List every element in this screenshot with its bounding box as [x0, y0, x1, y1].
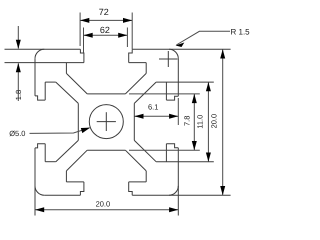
dim 62 extension line right [126, 28, 128, 48]
top slot left lip underside with 1.8 extension [5, 62, 84, 64]
svg-text:20.0: 20.0 [96, 199, 111, 208]
dim 7.8 extension line top [129, 93, 200, 95]
bottom face left [44, 194, 80, 196]
left face upper [34, 59, 36, 96]
left slot bottom step [35, 144, 45, 148]
left slot cavity wall top [45, 81, 56, 83]
arrowhead 6.1 right [169, 114, 178, 119]
arrowhead 20.0 right up [220, 49, 225, 58]
web diagonal bottom-right [125, 150, 146, 171]
arrowhead O5.0 leader [81, 128, 90, 134]
arrowhead 6.1 left [134, 114, 143, 119]
center mark horizontal [97, 121, 116, 123]
web diagonal right-bottom [134, 140, 156, 161]
top face right with 20.0 extension [132, 48, 230, 50]
right slot cavity wall top with 11.0 extension [156, 81, 214, 83]
dim 72 dimension line [80, 19, 132, 21]
arrowhead R1.5 leader [176, 43, 185, 48]
arrowhead 72 right [123, 18, 132, 23]
web diagonal right-top [134, 82, 156, 103]
arrowhead 1.8 down [16, 40, 21, 49]
left slot bottom lip face [44, 144, 46, 162]
corner arc bottom-right R1.5 [169, 186, 178, 195]
core left wall [77, 103, 79, 140]
web diagonal top-right [125, 73, 146, 94]
left face lower with 20.0 extension [34, 148, 36, 216]
top slot right lip underside [129, 62, 147, 64]
arrowhead 20.0 right down [220, 186, 225, 195]
dim 11.0 dimension line [207, 82, 209, 162]
top face with left extension (1.8 dim) [5, 48, 81, 50]
bottom face right with 20.0 extension [132, 194, 230, 196]
corner arc top-right R1.5 [169, 49, 178, 58]
right slot top lip face [165, 82, 167, 100]
right slot cavity wall bottom with 11.0 extension [156, 161, 214, 163]
left slot top lip face [44, 82, 46, 100]
bottom slot cavity wall left [65, 171, 67, 182]
center bore circle O5.0 [89, 105, 123, 139]
arrowhead 62 right [118, 33, 127, 38]
top slot cavity wall left [65, 63, 67, 74]
arrowhead 62 left [84, 33, 93, 38]
dim 20.0 bottom dimension line [35, 209, 178, 211]
svg-text:R 1.5: R 1.5 [231, 28, 251, 37]
dim 1.8 upper pointer line [17, 26, 19, 49]
top slot right step [129, 49, 133, 62]
dim 72 extension line left [79, 13, 81, 47]
dim 6.1 extension line right [177, 98, 179, 125]
left slot top step [35, 96, 45, 100]
right face upper [177, 59, 179, 97]
top slot left step [80, 49, 84, 62]
arrowhead 72 left [80, 18, 89, 23]
arrowhead 20.0 bottom left [35, 207, 44, 212]
dim 72 extension line right [131, 13, 133, 50]
left slot cavity wall bottom [45, 161, 56, 163]
core top wall [87, 93, 125, 95]
dim 7.8 extension line bottom [129, 149, 200, 151]
arrowhead 1.8 up [16, 63, 21, 72]
dim 20.0 right dimension line [222, 49, 224, 195]
dim 6.1 dimension line [134, 115, 178, 117]
bottom slot left step [80, 182, 84, 195]
corner arc top-left R1.5 [35, 49, 44, 58]
svg-text:20.0: 20.0 [209, 114, 218, 129]
dim 1.8 lower pointer line [17, 63, 19, 101]
web diagonal left-top [56, 82, 79, 103]
bottom slot right lip underside [129, 181, 147, 183]
svg-text:11.0: 11.0 [195, 115, 204, 129]
dim 7.8 dimension line [193, 94, 195, 150]
leader R1.5 [176, 31, 230, 45]
right slot bottom lip face [165, 144, 167, 162]
center mark vertical [105, 112, 107, 131]
web diagonal left-bottom [56, 140, 79, 161]
bottom slot cavity wall right [145, 171, 147, 182]
svg-text:7.8: 7.8 [182, 116, 191, 126]
arrowhead 11.0 up [206, 82, 211, 91]
core right wall [133, 103, 135, 140]
web diagonal top-left [66, 73, 87, 94]
bottom slot right step [129, 182, 133, 195]
core bottom wall [87, 149, 125, 151]
right slot top step [166, 96, 178, 100]
right face lower with 20.0 extension [177, 148, 179, 216]
svg-text:72: 72 [99, 7, 109, 17]
arrowhead 11.0 down [206, 153, 211, 162]
bottom slot left lip underside [66, 181, 84, 183]
svg-text:6.1: 6.1 [148, 103, 158, 112]
svg-text:62: 62 [100, 25, 110, 35]
corner radius center mark top-right [159, 58, 178, 60]
dim 62 dimension line [84, 34, 128, 36]
svg-text:Ø5.0: Ø5.0 [9, 129, 25, 138]
svg-text:1.8: 1.8 [14, 90, 23, 100]
leader O5.0 [30, 128, 90, 134]
top slot cavity wall right [145, 63, 147, 74]
arrowhead 7.8 up [192, 94, 197, 103]
web diagonal bottom-left [66, 150, 87, 171]
arrowhead 20.0 bottom right [169, 207, 178, 212]
right slot bottom step [166, 144, 178, 148]
corner arc bottom-left R1.5 [35, 186, 44, 195]
dim 62 extension line left [83, 28, 85, 54]
arrowhead 7.8 down [192, 141, 197, 150]
